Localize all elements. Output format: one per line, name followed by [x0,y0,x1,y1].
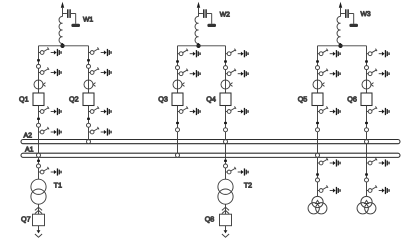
wire feeder T1 from busbar [38,157,40,179]
svg-text:W2: W2 [220,11,230,18]
current transformer (left col) [313,80,325,89]
disconnector with earthing switch (left col, row 3) [39,106,62,115]
withdrawable chevron up 2 (Q7) [35,210,42,213]
line W1 incoming arrow [61,2,64,8]
wire branch W3 left column upper [317,46,319,93]
isolating link tick (3w feeder right) [365,173,368,175]
wire branch W3 right column upper [366,46,368,93]
junction node W3 [338,44,342,48]
wire feeder T2 from busbar [225,144,227,180]
outgoing arrow (Q8) [224,230,228,233]
busbar A1 connection circle at x=177.5 [176,153,180,157]
wire feeder 3-winding left from busbar [317,157,319,196]
svg-text:W3: W3 [361,11,371,18]
circuit breaker Q3 [172,93,183,106]
svg-text:Q4: Q4 [206,95,216,104]
withdrawable breaker Q7 [33,214,45,226]
disconnector with earthing switch (right col, row 2) [226,69,249,78]
connector circle (left col upper) [176,66,180,70]
disconnector with earthing switch (left col, row 3) [178,106,201,115]
connector circle (right col upper) [87,64,91,68]
connector circle (3w feeder right) [365,178,369,182]
wire line W1 vertical [62,7,64,17]
withdrawable chevron up 1 (Q8) [222,207,229,210]
svg-text:T2: T2 [244,183,252,190]
line trap (wave trap) W3 [337,16,340,45]
isolating link tick (right col lower) [365,122,368,124]
svg-text:Q1: Q1 [19,95,29,104]
disconnector with earthing switch (left col, row 3) [318,106,341,115]
disconnector with earthing switch (right col, row 3) [367,106,390,115]
disconnector with earthing switch (right col, row 1) [367,49,390,58]
svg-text:Q7: Q7 [21,214,31,223]
connector circle (left col lower) [176,128,180,132]
disconnector with earthing switch (right col, row 2) [89,67,112,76]
circuit breaker Q4 [220,93,231,106]
current transformer (left col) [34,80,46,89]
current transformer (right col) [362,80,374,89]
busbar A1 connection circle at x=317.5 [316,153,320,157]
circuit breaker Q5 [312,93,323,106]
isolating link tick (right col lower) [87,118,90,120]
current transformer (right col) [221,80,233,89]
isolating link tick (right col upper) [224,60,227,62]
wire branch W2 right column lower [225,106,227,140]
line trap (wave trap) W1 [59,16,62,45]
circuit breaker Q6 [361,93,372,106]
wire T1 secondary [38,204,40,214]
line W3 incoming arrow [339,2,342,8]
outgoing arrow (Q7) [37,230,41,233]
connector circle (right col lower) [224,128,228,132]
disconnector with earthing switch (3w feeder left, row 2) [318,185,341,194]
line trap (wave trap) W2 [195,16,198,45]
wire branch W1 left column upper [38,46,40,93]
current transformer (right col) [84,80,96,89]
disconnector with earthing switch (3w feeder left, row 1) [318,158,341,167]
disconnector with earthing switch (left col, row 2) [39,67,62,76]
isolating link tick (left col lower) [37,118,40,120]
disconnector with earthing switch (right col, row 3) [89,106,112,115]
withdrawable chevron down (Q7) [35,234,42,237]
wire branch W1 right column upper [88,46,90,93]
connector circle (right col lower) [365,128,369,132]
junction node W1 [60,44,64,48]
three-winding transformer (left) [308,196,327,214]
svg-text:A2: A2 [24,132,33,139]
svg-text:Q3: Q3 [158,95,168,104]
busbar A2 connection circle at x=88.5 [87,140,91,144]
disconnector with earthing switch (left col, row 2) [178,69,201,78]
isolating link tick (left col upper) [176,60,179,62]
disconnector with earthing switch (right col, row 2) [367,69,390,78]
disconnector with earthing switch (feeder T1) [39,167,62,176]
isolating link tick (right col lower) [224,122,227,124]
withdrawable chevron up 2 (Q8) [222,210,229,213]
withdrawable chevron down (Q8) [222,234,229,237]
connector circle (3w feeder left) [316,178,320,182]
disconnector with earthing switch (left col, row 2) [318,69,341,78]
isolating link tick (feeder T2) [224,160,227,162]
disconnector with earthing switch (right col, row 1) [226,49,249,58]
isolating link tick (3w feeder left) [316,173,319,175]
transformer T2 [218,179,233,204]
circuit breaker Q1 [33,93,44,106]
svg-text:A1: A1 [25,146,34,153]
withdrawable breaker Q8 [220,214,232,226]
disconnector with earthing switch (right col, row 4) [89,127,112,136]
svg-text:Q2: Q2 [69,95,79,104]
wire branch W2 right column upper [225,46,227,93]
coupling capacitor branch W1 [63,9,81,27]
three-winding transformer (right) [357,196,376,214]
wire line W2 vertical [198,7,200,17]
coupling capacitor branch W2 [199,9,217,27]
wire T2 secondary [225,204,227,214]
svg-text:W1: W1 [83,16,93,23]
disconnector with earthing switch (3w feeder right, row 2) [367,185,390,194]
wire Q8 outgoing [225,226,227,231]
wire branch W1 left column lower [38,106,40,154]
svg-text:T1: T1 [54,183,62,190]
current transformer (left col) [173,80,185,89]
svg-text:Q6: Q6 [347,95,357,104]
connector circle (left col upper) [37,64,41,68]
circuit breaker Q2 [83,93,94,106]
svg-text:Q5: Q5 [298,95,308,104]
withdrawable chevron up 1 (Q7) [35,207,42,210]
wire split W2 [178,45,226,47]
wire branch W3 left column lower [317,106,319,154]
disconnector with earthing switch (3w feeder right, row 1) [367,158,390,167]
wire split W3 [318,45,367,47]
disconnector with earthing switch (left col, row 1) [39,47,62,56]
junction node W2 [196,44,200,48]
connector circle (feeder T2) [224,164,228,168]
wire Q7 outgoing [38,226,40,231]
wire feeder 3-winding right from busbar [366,144,368,197]
disconnector with earthing switch (left col, row 1) [318,49,341,58]
disconnector with earthing switch (left col, row 4) [39,127,62,136]
wire branch W1 right column lower [88,106,90,140]
wire branch W2 left column lower [177,106,179,154]
line W2 incoming arrow [197,2,200,8]
connector circle (feeder T1) [37,164,41,168]
busbar A2 [21,140,400,144]
connector circle (right col upper) [224,66,228,70]
isolating link tick (feeder T1) [37,160,40,162]
isolating link tick (right col upper) [87,59,90,61]
disconnector with earthing switch (left col, row 1) [178,49,201,58]
disconnector with earthing switch (right col, row 1) [89,47,112,56]
connector circle (right col upper) [365,66,369,70]
connector circle (right col lower) [87,123,91,127]
disconnector with earthing switch (feeder T2) [226,167,249,176]
wire branch W3 right column lower [366,106,368,140]
transformer T1 [31,179,46,204]
connector circle (left col lower) [316,128,320,132]
busbar A2 connection circle at x=366.5 [365,140,369,144]
wire line W3 vertical [340,7,342,17]
busbar A1 [21,153,400,157]
coupling capacitor branch W3 [341,9,359,27]
isolating link tick (right col upper) [365,60,368,62]
connector circle (left col upper) [316,66,320,70]
isolating link tick (left col lower) [316,122,319,124]
wire split W1 [39,45,89,47]
wire branch W2 left column upper [177,46,179,93]
isolating link tick (left col upper) [316,60,319,62]
isolating link tick (left col lower) [176,122,179,124]
disconnector with earthing switch (right col, row 3) [226,106,249,115]
connector circle (left col lower) [37,123,41,127]
busbar A2 connection circle at x=225.5 [224,140,228,144]
svg-text:Q8: Q8 [205,214,215,223]
isolating link tick (left col upper) [37,59,40,61]
busbar A1 connection circle at x=38.5 [37,153,41,157]
